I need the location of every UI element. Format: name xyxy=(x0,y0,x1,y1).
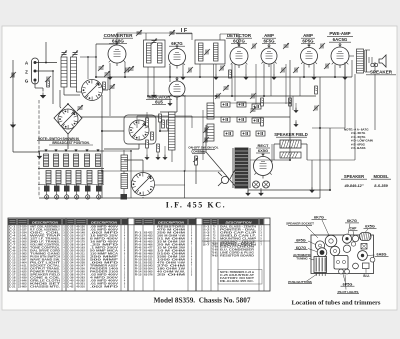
svg-text:R-13: R-13 xyxy=(135,269,142,271)
wire left to bank xyxy=(12,120,14,152)
push button jack J2 xyxy=(56,192,58,195)
svg-text:63-576: 63-576 xyxy=(144,275,153,277)
wire indicator loop xyxy=(136,116,138,128)
svg-text:DIAL DRIVE CORD: DIAL DRIVE CORD xyxy=(30,250,60,253)
wire resistor to bus xyxy=(159,122,161,131)
push button jack J1 xyxy=(46,192,48,195)
wire switch gang link xyxy=(87,57,89,79)
trimmer coil L14 (bottom row) xyxy=(98,171,103,184)
coupling trimmer C30 xyxy=(284,44,289,46)
trimmer coil L11 (bottom row) xyxy=(66,171,71,184)
svg-text:PILOT LIGHT: PILOT LIGHT xyxy=(30,263,61,265)
table misc divider xyxy=(202,240,270,242)
svg-text:RESISTOR BOARD: RESISTOR BOARD xyxy=(220,255,255,258)
electrolytic C15 xyxy=(237,117,246,122)
svg-text:49-849-12": 49-849-12" xyxy=(343,184,363,188)
svg-text:45-247: 45-247 xyxy=(76,265,85,268)
svg-text:TONE CONTROL: TONE CONTROL xyxy=(30,248,61,250)
trimmer near converter xyxy=(129,67,134,69)
svg-text:45-148: 45-148 xyxy=(76,232,85,235)
wire antenna A to lead-in xyxy=(37,62,58,64)
svg-text:NOTE:-TRIMMERS C-24 &: NOTE:-TRIMMERS C-24 & xyxy=(220,271,254,274)
padder capacitor C32 xyxy=(64,186,70,192)
svg-text:22-597: 22-597 xyxy=(18,260,27,262)
band switch S2 wafer xyxy=(132,173,155,196)
svg-text:22-653: 22-653 xyxy=(18,284,27,286)
wire network vertical xyxy=(184,95,186,171)
svg-text:.006 MFD: .006 MFD xyxy=(90,263,119,265)
svg-text:10 MFD 25V: 10 MFD 25V xyxy=(90,236,119,238)
svg-text:6P5G: 6P5G xyxy=(302,39,314,44)
trimmer near IF xyxy=(188,68,190,73)
speaker field choke L16 xyxy=(280,140,301,148)
ground power amp xyxy=(342,77,348,80)
detector pin wires xyxy=(231,64,233,96)
svg-text:270 OHM: 270 OHM xyxy=(157,266,185,268)
svg-text:22-548: 22-548 xyxy=(18,238,27,241)
speaker return wire xyxy=(374,62,376,130)
svg-text:C-11: C-11 xyxy=(9,257,16,259)
svg-text:45-193: 45-193 xyxy=(76,247,85,250)
svg-text:45-211: 45-211 xyxy=(76,253,85,256)
svg-text:63-433: 63-433 xyxy=(144,235,153,238)
svg-text:C-34: C-34 xyxy=(67,262,74,265)
svg-text:C-32: C-32 xyxy=(67,257,74,259)
coupling caps row xyxy=(216,94,218,99)
svg-text:70-88: 70-88 xyxy=(212,244,219,246)
svg-text:63-565: 63-565 xyxy=(144,272,153,274)
AVC divider resistor R15 xyxy=(146,140,149,148)
speaker field vertical wires xyxy=(289,60,291,160)
converter cathode wire xyxy=(109,63,111,75)
svg-text:R-14: R-14 xyxy=(135,271,142,274)
ground avc network 2 xyxy=(155,157,160,160)
svg-text:C-30: C-30 xyxy=(67,251,74,253)
trimmer coil L12 (bottom row) xyxy=(76,171,81,184)
wire af grid xyxy=(270,64,272,96)
svg-text:MOUNTING CLAMP: MOUNTING CLAMP xyxy=(220,238,257,241)
parts table frame xyxy=(8,218,270,291)
svg-text:22-625: 22-625 xyxy=(18,272,27,274)
svg-text:2ND I.F. TRANS.: 2ND I.F. TRANS. xyxy=(30,241,61,244)
converter plate wire xyxy=(95,44,97,77)
AVC divider resistor R14 xyxy=(162,120,165,128)
svg-text:6K7G: 6K7G xyxy=(347,219,357,223)
svg-text:500 MMF: 500 MMF xyxy=(90,260,120,262)
svg-text:.25 MFD: .25 MFD xyxy=(90,245,119,247)
IF transformer T2 secondary coil xyxy=(214,43,219,61)
padder capacitor C33 xyxy=(74,186,80,192)
amp tube U4 6F5G xyxy=(261,48,277,64)
svg-text:4 MFD 200V: 4 MFD 200V xyxy=(90,277,119,280)
chassis pilot lamp circles xyxy=(339,269,344,274)
svg-text:45-166: 45-166 xyxy=(76,238,85,241)
svg-text:63-532: 63-532 xyxy=(144,263,153,265)
svg-text:C-26: C-26 xyxy=(67,239,74,241)
svg-text:45-130: 45-130 xyxy=(76,226,85,229)
svg-text:6A8G: 6A8G xyxy=(377,253,387,257)
svg-text:16 MFD 450V: 16 MFD 450V xyxy=(90,241,119,244)
svg-text:22-632: 22-632 xyxy=(18,275,27,277)
svg-text:3300 OHM 1W: 3300 OHM 1W xyxy=(157,257,187,259)
svg-text:1ST I.F. TRANS.: 1ST I.F. TRANS. xyxy=(30,238,61,241)
wire mid horizontal 171 xyxy=(102,170,222,172)
bypass cap C19 xyxy=(241,131,250,136)
svg-text:45-220: 45-220 xyxy=(76,256,85,259)
svg-text:C-39: C-39 xyxy=(67,278,74,280)
svg-text:74-92: 74-92 xyxy=(212,255,219,258)
ground IF t2 xyxy=(213,77,219,80)
wire S2 right link xyxy=(155,184,186,186)
svg-text:ESCUTCHEON: ESCUTCHEON xyxy=(220,247,255,249)
power transformer T4 xyxy=(235,148,248,188)
converter grid cap wire xyxy=(116,33,118,45)
IF transformer T2 primary coil xyxy=(199,43,204,61)
svg-text:22-590: 22-590 xyxy=(18,257,27,259)
ground antenna xyxy=(40,95,46,99)
output secondary wire xyxy=(354,74,356,160)
ground transformer xyxy=(245,193,251,196)
wire avc return xyxy=(292,96,294,110)
svg-text:15 M OHM 2W: 15 M OHM 2W xyxy=(157,248,187,250)
osc grid resistor R18 xyxy=(103,82,106,89)
svg-text:SPEAKER: SPEAKER xyxy=(370,70,393,75)
chassis push button unit xyxy=(314,257,327,273)
grid resistor R5 xyxy=(229,70,232,78)
svg-text:POWER TRANS.: POWER TRANS. xyxy=(30,271,61,274)
trimmer coil L9 (bottom row) xyxy=(46,171,51,184)
wire switch to converter xyxy=(103,89,109,91)
svg-text:63-521: 63-521 xyxy=(144,260,153,262)
oscillator trimmer C3 xyxy=(73,52,78,54)
svg-text:6X5G: 6X5G xyxy=(258,148,268,153)
tone resistor R17 xyxy=(207,124,214,141)
B+ right vertical wire xyxy=(319,77,321,198)
svg-text:45-283: 45-283 xyxy=(76,277,85,280)
svg-text:POINTER - DIAL: POINTER - DIAL xyxy=(220,229,257,232)
svg-text:6K7G: 6K7G xyxy=(314,216,324,220)
svg-text:SPEAKER SOCKET: SPEAKER SOCKET xyxy=(286,222,314,226)
svg-text:C-16: C-16 xyxy=(9,272,16,274)
RF coil L1 xyxy=(61,57,67,87)
osc padder C27 xyxy=(125,68,127,73)
ground avc network 3 xyxy=(162,157,167,160)
svg-text:C-38: C-38 xyxy=(67,275,74,277)
wire indicator down xyxy=(176,97,178,112)
detector tube U3 6Q7G xyxy=(230,47,248,65)
diode load resistor R12 xyxy=(151,132,154,140)
electrolytic C17 xyxy=(252,118,261,123)
svg-text:LINE CORD & PLUG: LINE CORD & PLUG xyxy=(220,253,254,255)
svg-text:63-455: 63-455 xyxy=(144,241,153,244)
svg-text:KNOB SET: KNOB SET xyxy=(30,284,61,286)
svg-text:TRIMMER ASSY: TRIMMER ASSY xyxy=(90,265,119,268)
svg-text:SPEAKER FIELD: SPEAKER FIELD xyxy=(30,274,61,277)
svg-text:MODEL: MODEL xyxy=(373,174,389,179)
wire vol control down xyxy=(195,165,197,184)
svg-text:6F5G: 6F5G xyxy=(296,239,306,243)
svg-text:C-42: C-42 xyxy=(67,286,74,289)
trimmer coil L13 (bottom row) xyxy=(87,171,92,184)
svg-text:10 M OHM: 10 M OHM xyxy=(157,251,185,253)
screen resistor R8 xyxy=(315,86,318,94)
svg-text:C-22: C-22 xyxy=(67,227,74,229)
svg-text:B.U. CONDENSER: B.U. CONDENSER xyxy=(220,250,255,252)
field return wire xyxy=(329,128,331,190)
svg-text:72-90: 72-90 xyxy=(212,250,219,252)
wire G terminal to ground xyxy=(34,82,36,89)
svg-text:.01 MFD 600V: .01 MFD 600V xyxy=(90,230,119,232)
tone resistor R16 xyxy=(207,103,214,119)
ground amp 6P5G xyxy=(311,77,317,80)
svg-text:C-21: C-21 xyxy=(9,287,16,289)
antenna series capacitor C1 xyxy=(46,77,48,82)
svg-text:22-576: 22-576 xyxy=(18,251,27,253)
trimmer coil L10 (bottom row) xyxy=(56,171,61,184)
antenna terminal strip xyxy=(32,58,39,84)
svg-text:C-13: C-13 xyxy=(9,263,16,265)
indicator tube U7 6U5 xyxy=(169,81,185,97)
wire indicator to IF xyxy=(176,79,178,82)
oscillator coil L18 xyxy=(121,174,128,189)
trimmer near amp xyxy=(281,68,283,73)
chassis B.U. box xyxy=(363,263,370,269)
converter tube U1 6A8G xyxy=(108,45,126,63)
chassis tube 6K7G socket xyxy=(325,235,337,247)
AVC resistor R2 xyxy=(167,120,170,128)
svg-text:C-33: C-33 xyxy=(67,260,74,262)
svg-text:# F- BASS: # F- BASS xyxy=(351,146,366,150)
osc trimmer C26 xyxy=(105,72,110,74)
chassis tube 6T5 socket xyxy=(330,246,340,256)
svg-text:6AC5G: 6AC5G xyxy=(333,37,348,42)
svg-text:63-466: 63-466 xyxy=(144,244,153,247)
svg-text:.05 MFD 400V: .05 MFD 400V xyxy=(90,280,119,283)
svg-text:45-157: 45-157 xyxy=(76,235,85,238)
svg-text:PUSH BTN SWITCH: PUSH BTN SWITCH xyxy=(30,257,60,259)
B+ feed wire xyxy=(248,189,330,191)
svg-text:5100 OHM: 5100 OHM xyxy=(157,254,185,256)
svg-text:PILOT LIGHTS: PILOT LIGHTS xyxy=(338,290,359,294)
IF tube pin wires xyxy=(169,65,171,77)
wire tone branch xyxy=(205,125,207,152)
svg-text:C-25 ADJUSTED AT: C-25 ADJUSTED AT xyxy=(220,274,255,277)
IF T1 trimmer top xyxy=(152,40,157,42)
ground coil bank xyxy=(37,156,43,159)
chassis tube 6A8G socket xyxy=(358,251,368,261)
svg-text:R-10: R-10 xyxy=(135,260,142,262)
chassis outline xyxy=(311,235,374,274)
bypass cap C18 xyxy=(224,131,233,136)
svg-text:DIAL GLASS - ZENITH: DIAL GLASS - ZENITH xyxy=(220,226,257,229)
speaker top wires xyxy=(365,49,370,51)
padder capacitor C34 xyxy=(85,186,91,192)
push button jack J5 xyxy=(87,192,89,195)
wire rectifier filament xyxy=(250,159,274,161)
svg-text:SHIELD CAN I.F.: SHIELD CAN I.F. xyxy=(220,235,257,238)
padder coil L8 (top row) xyxy=(96,154,101,167)
svg-text:63-510: 63-510 xyxy=(144,257,153,259)
bias resistor R9 xyxy=(289,98,292,106)
AVC bus wire xyxy=(148,95,316,97)
svg-text:.002 MFD: .002 MFD xyxy=(90,287,119,289)
svg-text:20 M OHM: 20 M OHM xyxy=(157,245,185,247)
svg-text:22-534: 22-534 xyxy=(18,232,27,235)
wire detector plate xyxy=(213,64,215,104)
svg-text:45-274: 45-274 xyxy=(76,274,85,277)
svg-text:C-24: C-24 xyxy=(67,232,74,235)
svg-text:22-520: 22-520 xyxy=(18,227,27,229)
svg-text:C-17: C-17 xyxy=(9,275,16,277)
svg-text:8 MFD 450V: 8 MFD 450V xyxy=(90,238,119,241)
svg-text:Location of tubes and trimmers: Location of tubes and trimmers xyxy=(291,300,380,307)
svg-text:C-37: C-37 xyxy=(67,272,74,274)
wire af plate xyxy=(285,64,287,104)
wire coil to switch xyxy=(76,87,78,92)
parts table header row xyxy=(9,219,17,225)
svg-text:C-27: C-27 xyxy=(67,242,74,244)
dial cord dashed link xyxy=(38,100,40,197)
grid line trimmer C40 xyxy=(137,31,142,33)
svg-text:C-18: C-18 xyxy=(9,278,16,280)
ground amp 6F5G xyxy=(271,77,277,80)
coupling trimmer C31 xyxy=(320,44,322,49)
svg-text:33 M OHM 1W: 33 M OHM 1W xyxy=(157,242,187,244)
svg-text:.02 MFD 400V: .02 MFD 400V xyxy=(90,274,119,277)
wire bank left xyxy=(39,151,41,154)
svg-text:VOLUME CONTROL: VOLUME CONTROL xyxy=(30,245,61,247)
electrolytic C16 xyxy=(252,104,261,109)
wire field right xyxy=(301,143,307,145)
wire Z terminal xyxy=(37,70,54,72)
svg-text:B.U.: B.U. xyxy=(363,274,369,278)
padder capacitor C30 xyxy=(44,186,50,192)
coil bank mid bus xyxy=(38,168,104,170)
svg-text:63-444: 63-444 xyxy=(144,238,153,241)
svg-text:63-499: 63-499 xyxy=(144,253,153,256)
push button jack J4 xyxy=(76,192,78,195)
volume control R4 xyxy=(195,156,198,165)
svg-text:6P5G: 6P5G xyxy=(343,282,353,286)
svg-text:PADDER 2100: PADDER 2100 xyxy=(90,271,119,274)
wire diag to power xyxy=(206,152,236,187)
IF transformer T1 primary coil xyxy=(147,43,152,63)
electrolytic C14 xyxy=(221,117,230,122)
svg-text:45-229: 45-229 xyxy=(76,259,85,262)
B+ bus wire xyxy=(80,116,290,118)
tuning gang frame xyxy=(54,104,82,134)
svg-text:250 M OHM: 250 M OHM xyxy=(157,233,185,235)
rectifier tube U8 6X5G xyxy=(254,157,273,176)
wire converter to osc switch xyxy=(101,95,103,198)
svg-text:DESCRIPTION: DESCRIPTION xyxy=(91,220,118,224)
grid cap C22 xyxy=(251,108,256,110)
chassis filter can CAP xyxy=(360,233,372,241)
ground converter cathode xyxy=(107,77,113,80)
cathode cap C21 xyxy=(294,68,296,73)
oscillator coil L17 xyxy=(121,155,128,171)
svg-text:Z: Z xyxy=(25,70,28,75)
padder coil L6 (top row) xyxy=(74,154,79,167)
IF t2 bottom wires xyxy=(199,64,201,77)
ground IF cathode xyxy=(180,77,186,80)
heater bus wire xyxy=(96,76,352,78)
ground avc network xyxy=(144,157,149,160)
AC line plug xyxy=(221,176,228,183)
speaker LS1 xyxy=(379,55,386,67)
chassis tube 6F5G socket xyxy=(315,241,324,250)
ground avc filter 2 xyxy=(293,124,298,127)
chassis trimmer cap top xyxy=(352,235,358,241)
grid line trimmer C41 xyxy=(170,31,175,33)
svg-text:PUSH BUTTONS: PUSH BUTTONS xyxy=(288,280,312,284)
svg-text:22-541: 22-541 xyxy=(18,235,27,238)
svg-text:DESCRIPTION: DESCRIPTION xyxy=(158,220,185,224)
IF T2 trimmer xyxy=(205,50,207,55)
wire switch S2 stem xyxy=(142,160,144,173)
wire osc switch feed xyxy=(102,130,124,132)
svg-text:63-543: 63-543 xyxy=(144,265,153,268)
svg-text:CONTROL: CONTROL xyxy=(191,150,206,154)
svg-text:C-19: C-19 xyxy=(9,281,16,283)
parts table factory note xyxy=(218,270,262,285)
parts table column rules xyxy=(7,218,9,291)
svg-text:50 MMF MICA: 50 MMF MICA xyxy=(90,250,119,253)
svg-text:63-488: 63-488 xyxy=(144,250,153,253)
svg-text:R.F. COIL ASSEMBLY: R.F. COIL ASSEMBLY xyxy=(30,229,61,232)
svg-text:45-238: 45-238 xyxy=(76,262,85,265)
chassis tube 6Q7G socket xyxy=(317,248,327,258)
wire detector diode xyxy=(234,64,236,101)
table column group divider 1 xyxy=(127,218,129,291)
IF amp tube U2 6K7G xyxy=(169,49,186,66)
coil bank lower bus xyxy=(38,184,104,186)
table column group divider 2 xyxy=(195,218,197,291)
wire network vertical 2 xyxy=(202,110,204,160)
svg-text:63-422: 63-422 xyxy=(144,232,153,235)
svg-text:71-89: 71-89 xyxy=(212,247,219,249)
amp 6F5G pin wires xyxy=(263,64,265,97)
padder coil L7 (top row) xyxy=(85,154,90,167)
svg-text:DESCRIPTION: DESCRIPTION xyxy=(32,220,59,224)
diode load resistor R11 xyxy=(146,118,149,126)
wire bank to osc coil xyxy=(104,150,131,152)
coil bank top bus xyxy=(38,150,104,152)
svg-text:45-310: 45-310 xyxy=(76,286,85,289)
chassis small socket bottom xyxy=(353,263,359,269)
svg-text:C-36: C-36 xyxy=(67,269,74,271)
svg-text:73-91: 73-91 xyxy=(212,253,219,255)
svg-text:CHASSIS MTG.: CHASSIS MTG. xyxy=(30,286,61,289)
amp tube U5 6P5G xyxy=(301,48,318,65)
padder coil L3 (top row) xyxy=(44,154,49,167)
chassis square trimmer xyxy=(361,244,367,250)
svg-text:22-660: 22-660 xyxy=(18,287,27,289)
svg-text:CONVERTER: CONVERTER xyxy=(104,33,134,38)
svg-text:C-12: C-12 xyxy=(9,260,16,262)
svg-text:C-35: C-35 xyxy=(67,266,74,268)
wire af coupling xyxy=(255,64,257,104)
svg-text:63-477: 63-477 xyxy=(144,247,153,250)
padder coil L5 (top row) xyxy=(64,154,69,167)
junction dots xyxy=(95,76,97,78)
svg-text:C-29: C-29 xyxy=(67,248,74,250)
svg-text:.01 MFD 600V: .01 MFD 600V xyxy=(90,284,119,286)
RF coil L2 xyxy=(71,57,77,87)
svg-text:BROADCAST POSITION.: BROADCAST POSITION. xyxy=(52,141,89,145)
svg-text:NOTE:-SWITCH SHOWN IN: NOTE:-SWITCH SHOWN IN xyxy=(38,137,79,141)
svg-text:22-611: 22-611 xyxy=(18,266,27,268)
